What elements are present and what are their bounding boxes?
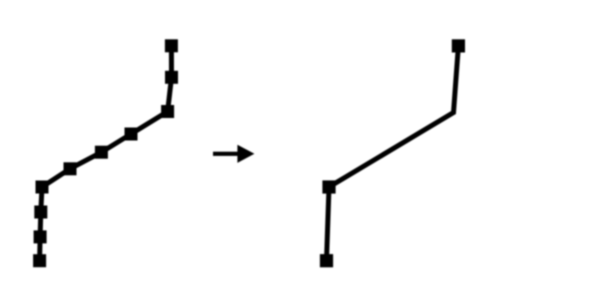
node Q2 — [322, 180, 335, 193]
node P5 — [95, 146, 108, 159]
node Q3 — [320, 254, 333, 267]
node P4 — [125, 128, 138, 141]
node Q1 — [452, 39, 465, 52]
node P8 — [34, 206, 47, 219]
node P2 — [165, 71, 178, 84]
node P9 — [34, 230, 47, 243]
node P6 — [64, 162, 77, 175]
node P10 — [33, 254, 46, 267]
node P3 — [161, 105, 174, 118]
wire simplified polyline — [327, 46, 459, 261]
node P7 — [36, 181, 49, 194]
node P1 — [165, 39, 178, 52]
arrow — [213, 145, 254, 163]
wire original polyline — [40, 46, 172, 261]
